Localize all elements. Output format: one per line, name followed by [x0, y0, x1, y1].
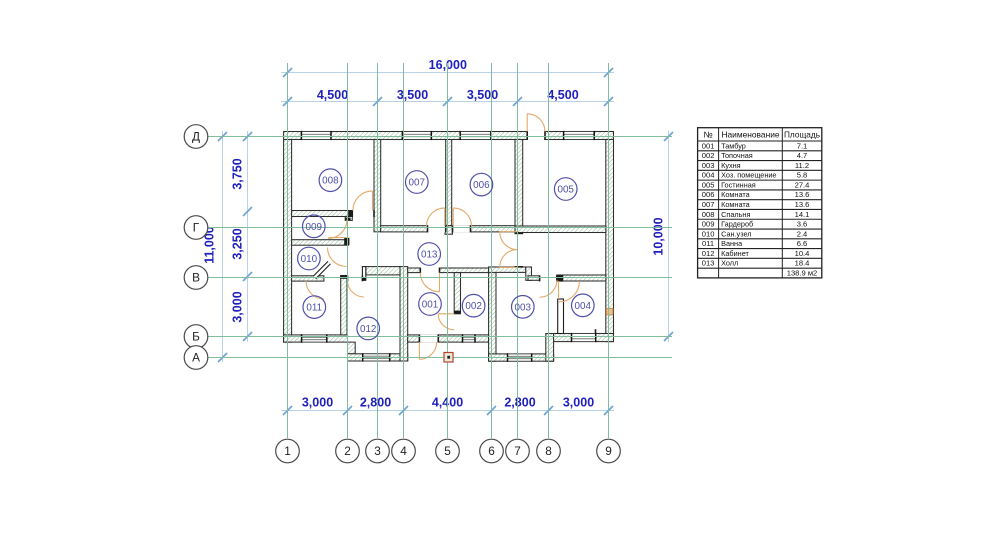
svg-text:Г: Г — [193, 221, 200, 235]
svg-text:012: 012 — [360, 324, 376, 335]
svg-text:3,500: 3,500 — [397, 88, 428, 102]
window room 002 south — [463, 334, 476, 342]
room label 009 — [303, 215, 326, 238]
wall exterior right — [606, 140, 614, 342]
svg-text:3,750: 3,750 — [231, 158, 245, 189]
svg-text:013: 013 — [702, 259, 715, 268]
svg-text:Кабинет: Кабинет — [721, 249, 749, 258]
wall room 005 south — [515, 226, 606, 233]
room label 013 — [418, 243, 441, 266]
svg-text:2,800: 2,800 — [360, 395, 391, 409]
room label 010 — [298, 247, 321, 270]
svg-text:Кухня: Кухня — [721, 161, 741, 170]
svg-text:008: 008 — [322, 176, 339, 187]
svg-text:003: 003 — [515, 302, 532, 313]
svg-text:009: 009 — [702, 220, 715, 229]
grid bubble 8 — [537, 439, 561, 463]
door arc room 003 — [540, 280, 557, 297]
svg-text:005: 005 — [557, 185, 574, 196]
door arc entrance top — [527, 114, 545, 132]
grid bubble 4 — [392, 439, 416, 463]
window room 004 south — [572, 333, 596, 342]
door opening entrance top — [527, 131, 545, 140]
room label 008 — [319, 169, 342, 192]
dimension chain 4,500 3,500 3,500 4,500 — [281, 88, 614, 106]
svg-text:011: 011 — [702, 239, 714, 248]
svg-text:3,000: 3,000 — [302, 395, 333, 409]
wall rooms 001/002 north — [440, 268, 489, 273]
svg-text:2,800: 2,800 — [504, 395, 535, 409]
grid bubble В — [184, 266, 208, 290]
door arc rooms 006 — [453, 208, 471, 226]
svg-text:Ванна: Ванна — [721, 239, 743, 248]
svg-text:006: 006 — [702, 190, 715, 199]
svg-text:13.6: 13.6 — [795, 200, 810, 209]
door arc room 005 upper — [500, 232, 518, 250]
grid bubble А — [184, 346, 208, 370]
svg-text:002: 002 — [465, 301, 481, 312]
door arc room 009 — [328, 220, 347, 239]
svg-text:27.4: 27.4 — [795, 180, 810, 189]
room label 005 — [554, 178, 577, 201]
wall grid-3 rooms 008/013 — [374, 140, 381, 232]
wall room 012 north — [366, 267, 400, 275]
dimension chain 3,750 3,250 3,000 — [231, 131, 253, 342]
grid bubble 3 — [366, 439, 390, 463]
wall grid-5 rooms 007/006 — [446, 140, 452, 226]
door arc room 005 lower — [500, 249, 518, 267]
door opening room 001 north — [420, 268, 439, 273]
grid bubble Г — [184, 216, 208, 240]
svg-text:4: 4 — [400, 444, 407, 458]
wall rooms 007/006 south west part — [381, 226, 428, 232]
svg-text:3,000: 3,000 — [563, 395, 594, 409]
wall bay 003 left / room 002 east — [489, 267, 496, 361]
door opening rooms 003/004 — [540, 275, 557, 281]
svg-text:006: 006 — [473, 180, 490, 191]
svg-text:10.4: 10.4 — [795, 249, 810, 258]
wall rooms 001/002 partition — [454, 273, 460, 314]
svg-text:1: 1 — [284, 444, 291, 458]
door arc rooms 001/002 — [438, 314, 454, 330]
door opening room 006 — [453, 225, 471, 232]
dimension chain 3,000 2,800 4,400 2,800 3,000 — [281, 395, 614, 415]
svg-text:005: 005 — [702, 180, 715, 189]
wall grid-2 rooms 011/012 — [341, 276, 347, 335]
wall bay 012 right / room 001 west — [400, 267, 408, 361]
door opening room 007 — [428, 225, 446, 232]
grid bubble 1 — [276, 439, 300, 463]
svg-text:007: 007 — [702, 200, 715, 209]
window room 007 north — [402, 131, 431, 140]
wall stub room 008 door jamb — [345, 217, 352, 221]
grid axis lines horizontal А-Д — [208, 137, 672, 358]
room label 004 — [572, 294, 595, 317]
room label 003 — [512, 296, 535, 319]
grid bubble Б — [184, 325, 208, 349]
wall corridor south / room 003 north-west — [489, 267, 526, 272]
wall grid-5 south block — [445, 226, 453, 235]
wall bay 003 bottom — [489, 354, 554, 361]
door arc porch — [419, 342, 436, 359]
svg-text:В: В — [192, 271, 200, 285]
door arc room 001 north — [420, 273, 439, 292]
grid bubble 7 — [506, 439, 530, 463]
svg-text:Гардероб: Гардероб — [721, 220, 753, 229]
svg-text:001: 001 — [422, 300, 439, 311]
door arc room 010 — [328, 248, 347, 267]
svg-text:10,000: 10,000 — [652, 217, 666, 255]
window room 012 south — [363, 353, 390, 361]
room label 001 — [419, 293, 442, 316]
wall rooms 003/004 divider — [558, 299, 564, 334]
svg-text:009: 009 — [306, 222, 323, 233]
svg-text:2: 2 — [344, 444, 351, 458]
grid bubble 2 — [336, 439, 360, 463]
door leaf rooms 010/011 diagonal — [306, 263, 329, 299]
svg-text:А: А — [192, 351, 200, 365]
door vent room 004 east wall — [606, 308, 613, 315]
wall room 001 north — [408, 268, 421, 273]
door arc rooms 007 — [427, 208, 445, 226]
wall room 004 north — [557, 275, 606, 281]
svg-text:4.7: 4.7 — [797, 151, 808, 160]
wall exterior bottom (rooms 001-002) — [408, 335, 489, 342]
svg-text:004: 004 — [575, 301, 592, 312]
svg-text:010: 010 — [702, 229, 715, 238]
door opening room 012 — [348, 275, 363, 281]
door arc room 012 — [348, 281, 365, 298]
window room 003 south — [508, 353, 532, 362]
svg-text:Комната: Комната — [721, 190, 751, 199]
wall room 008 south — [292, 211, 353, 217]
svg-text:6: 6 — [488, 444, 495, 458]
svg-text:8: 8 — [545, 444, 552, 458]
wall exterior left — [284, 140, 292, 343]
svg-text:Хоз. помещение: Хоз. помещение — [721, 171, 776, 180]
wall bay 012 left — [348, 342, 356, 354]
wall exterior top — [284, 132, 614, 140]
svg-text:Топочная: Топочная — [721, 151, 753, 160]
grid bubble 5 — [436, 439, 460, 463]
svg-text:011: 011 — [306, 303, 322, 314]
door arc room 004 — [559, 281, 580, 302]
svg-text:2.4: 2.4 — [797, 229, 808, 238]
svg-text:4,500: 4,500 — [547, 88, 578, 102]
room schedule table — [698, 128, 822, 278]
svg-text:11.2: 11.2 — [795, 161, 809, 170]
wall grid-7 rooms 006/005 — [515, 140, 523, 233]
svg-text:010: 010 — [301, 254, 318, 265]
svg-text:7: 7 — [514, 444, 521, 458]
svg-text:Наименование: Наименование — [721, 130, 779, 140]
window room 008 north — [301, 131, 331, 140]
svg-text:7.1: 7.1 — [797, 141, 808, 150]
wall room 009 south — [292, 240, 349, 246]
svg-text:013: 013 — [421, 250, 438, 261]
svg-text:Площадь: Площадь — [784, 130, 820, 140]
svg-text:007: 007 — [409, 178, 425, 189]
window room 006 north — [460, 131, 491, 140]
svg-text:002: 002 — [702, 151, 715, 160]
svg-text:004: 004 — [702, 171, 715, 180]
svg-text:Комната: Комната — [721, 200, 751, 209]
svg-text:5.8: 5.8 — [797, 171, 808, 180]
room label 007 — [406, 171, 429, 194]
wall rooms 006 south east part — [453, 226, 516, 232]
svg-text:3,000: 3,000 — [231, 291, 245, 322]
svg-text:008: 008 — [702, 210, 715, 219]
svg-text:3,250: 3,250 — [231, 228, 245, 259]
dimension line 16,000 top — [281, 58, 614, 77]
room label 006 — [470, 173, 493, 196]
grid axis lines vertical 1-9 — [288, 63, 609, 438]
room label 002 — [462, 294, 485, 317]
svg-text:4,500: 4,500 — [317, 88, 348, 102]
wall step rooms 003 north — [526, 267, 532, 280]
svg-text:003: 003 — [702, 161, 715, 170]
wall bay 012 bottom — [348, 354, 408, 361]
svg-text:5: 5 — [444, 444, 451, 458]
svg-text:Б: Б — [192, 330, 200, 344]
svg-text:13.6: 13.6 — [795, 190, 810, 199]
svg-text:Д: Д — [192, 130, 200, 144]
room label 011 — [303, 296, 326, 319]
svg-text:012: 012 — [702, 249, 715, 258]
door opening rooms 005 double — [515, 233, 524, 266]
wall exterior bottom (room 004) — [554, 334, 614, 342]
svg-text:Холл: Холл — [721, 259, 738, 268]
svg-text:3,500: 3,500 — [467, 88, 498, 102]
dimension line 11,000 left — [203, 131, 228, 362]
wall room 010 south — [292, 276, 324, 281]
svg-text:001: 001 — [702, 141, 715, 150]
door opening room 008 — [352, 210, 374, 217]
svg-text:3: 3 — [374, 444, 381, 458]
grid bubble 9 — [597, 439, 621, 463]
svg-text:18.4: 18.4 — [795, 259, 810, 268]
svg-text:№: № — [703, 130, 712, 140]
svg-text:Сан.узел: Сан.узел — [721, 229, 751, 238]
svg-text:Спальня: Спальня — [721, 210, 750, 219]
wall room 003 north — [528, 276, 540, 281]
svg-text:Тамбур: Тамбур — [721, 141, 746, 150]
porch column — [444, 353, 453, 363]
dimension line 10,000 right — [652, 131, 674, 342]
svg-text:9: 9 — [605, 444, 612, 458]
svg-text:3.6: 3.6 — [797, 220, 808, 229]
grid bubble Д — [184, 125, 208, 149]
grid bubble 6 — [480, 439, 504, 463]
door arc room 008 — [353, 191, 373, 211]
room label 012 — [357, 317, 380, 340]
door opening porch room 001 south — [419, 335, 438, 343]
window room 011 south — [302, 334, 327, 342]
window room 005 north — [564, 131, 595, 140]
svg-text:14.1: 14.1 — [795, 210, 810, 219]
wall exterior bottom west (room 011) — [284, 335, 348, 342]
svg-text:138.9 м2: 138.9 м2 — [787, 268, 818, 277]
wall bay 003 right — [546, 334, 554, 362]
svg-text:Гостинная: Гостинная — [721, 180, 756, 189]
svg-text:6.6: 6.6 — [797, 239, 808, 248]
wall step room 012 door jamb — [362, 267, 365, 281]
